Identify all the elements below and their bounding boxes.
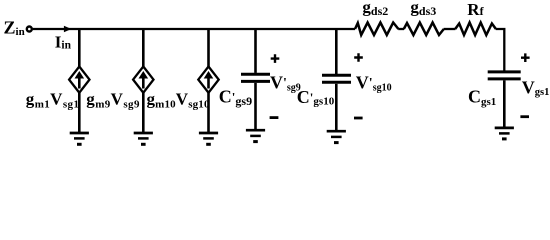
ground under G3 — [199, 132, 218, 135]
wire: top rail to current source G2 — [142, 29, 145, 68]
wire: top rail to current source G3 — [207, 29, 210, 68]
ground under C'gs9 — [246, 129, 265, 132]
current arrow Iin on input wire — [64, 26, 72, 33]
svg-text:Rf: Rf — [467, 0, 484, 19]
G3 arrow (upward) — [207, 77, 210, 89]
plus sign for V'sg9 — [271, 54, 280, 63]
dependent current source G2 (gm9Vsg9) diamond — [133, 67, 153, 93]
wire: C'gs10 to ground — [335, 84, 338, 131]
G1 arrow (upward) — [78, 77, 81, 89]
capacitor C'gs10 plates — [322, 74, 351, 77]
wire: Cgs1 to ground — [503, 80, 506, 127]
wire: C'gs9 to ground — [254, 83, 257, 130]
G2 arrow (upward) — [142, 77, 145, 89]
wire: top rail from input terminal to gds2 — [33, 28, 355, 30]
ground under G2 — [134, 132, 153, 135]
wire: G3 to ground — [207, 92, 210, 133]
minus sign for V'sg9 — [270, 116, 279, 119]
resistor gds2 zigzag — [355, 23, 398, 36]
capacitor Cgs1 plates — [488, 70, 521, 73]
wire: gds2 to gds3 — [398, 28, 404, 30]
wire: Rf to top of Cgs1 (corner) — [496, 29, 505, 71]
wire: G1 to ground — [78, 92, 81, 133]
minus sign for V'sg10 — [354, 117, 363, 120]
minus sign for Vgs1 — [520, 115, 529, 118]
dependent current source G1 (gm1Vsg1) diamond — [69, 67, 89, 93]
wire: G2 to ground — [142, 92, 145, 133]
wire: top rail to current source G1 — [78, 29, 81, 68]
resistor gds3 zigzag — [404, 23, 444, 36]
wire: top rail to capacitor C'gs9 — [254, 29, 257, 73]
wire: top rail to capacitor C'gs10 — [335, 29, 338, 74]
wire: gds3 to Rf — [444, 28, 456, 30]
ground under G1 — [70, 132, 89, 135]
ground under C'gs10 — [327, 130, 346, 133]
capacitor C'gs9 plates — [241, 73, 270, 76]
dependent current source G3 (gm10Vsg10) diamond — [198, 67, 218, 93]
plus sign for Vgs1 — [521, 53, 530, 62]
ground under Cgs1 — [495, 127, 514, 130]
resistor Rf zigzag — [455, 23, 496, 36]
input terminal circle (node Zin) — [27, 27, 32, 32]
plus sign for V'sg10 — [354, 53, 363, 62]
